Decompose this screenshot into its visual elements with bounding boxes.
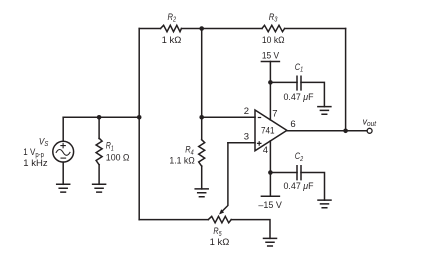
op-amp U1 741 — [255, 110, 287, 151]
svg-text:100 Ω: 100 Ω — [106, 152, 130, 163]
svg-text:15 V: 15 V — [262, 50, 280, 61]
junction node input-left — [137, 115, 142, 120]
source VS — [62, 117, 64, 141]
svg-text:1.1 kΩ: 1.1 kΩ — [169, 155, 194, 166]
svg-text:0.47 μF: 0.47 μF — [284, 92, 314, 103]
svg-text:R1: R1 — [106, 141, 114, 153]
svg-text:vout: vout — [363, 116, 377, 128]
ground (R1) — [93, 184, 106, 192]
svg-text:10 kΩ: 10 kΩ — [262, 35, 285, 46]
wire C2 right — [301, 173, 325, 201]
junction node R2-R3 — [199, 26, 204, 31]
wire R3 right to feedback corner — [285, 28, 346, 30]
wiper arrowhead — [219, 209, 224, 214]
resistor R2 — [161, 25, 182, 31]
svg-text:C1: C1 — [295, 62, 303, 74]
svg-text:7: 7 — [272, 108, 277, 119]
svg-text:0.47 μF: 0.47 μF — [284, 181, 314, 192]
svg-text:R2: R2 — [168, 12, 177, 24]
supply +15V bar — [261, 61, 279, 63]
terminal vout — [367, 128, 372, 133]
resistor R3 — [262, 25, 285, 31]
wire C1 right — [301, 82, 324, 106]
svg-text:–15 V: –15 V — [258, 200, 282, 211]
wire middle vertical (R2/R3 node down) — [201, 29, 203, 140]
svg-text:1 kΩ: 1 kΩ — [162, 35, 182, 46]
svg-text:1 kΩ: 1 kΩ — [210, 237, 230, 248]
wire left vertical — [138, 29, 140, 220]
opamp plus sign — [257, 141, 262, 146]
ground (C1) — [318, 107, 331, 115]
svg-text:R3: R3 — [269, 12, 278, 24]
svg-text:C2: C2 — [295, 151, 303, 163]
potentiometer R5 — [208, 216, 231, 222]
wire feedback vertical — [345, 29, 347, 131]
svg-text:4: 4 — [263, 145, 268, 156]
junction node C2 — [268, 170, 273, 175]
wire R5 left — [139, 219, 208, 221]
resistor R4 — [199, 140, 205, 167]
svg-text:6: 6 — [290, 119, 295, 130]
capacitor C1 — [297, 76, 301, 90]
opamp minus sign — [258, 117, 261, 119]
wire top-left segment (R2 left lead) — [139, 28, 160, 30]
svg-text:2: 2 — [244, 106, 249, 117]
wire pin4 vertical — [269, 141, 271, 196]
supply -15V bar — [261, 195, 279, 197]
capacitor C2 — [297, 166, 301, 180]
ground (R5) — [264, 238, 277, 246]
junction node output — [343, 129, 348, 134]
wire C1 left — [270, 81, 297, 83]
wire wiper from pin3 — [222, 143, 228, 212]
ground (C2) — [318, 200, 331, 208]
wire C2 left — [270, 172, 297, 174]
wire output — [287, 130, 367, 132]
wire input horizontal — [63, 116, 139, 118]
ground (R4) — [195, 189, 208, 197]
svg-text:3: 3 — [244, 131, 249, 142]
svg-text:VS: VS — [39, 136, 49, 148]
junction node C1 — [268, 80, 273, 85]
wire pin3 — [228, 142, 255, 144]
junction node pin2-R4 — [199, 115, 204, 120]
svg-text:1 kHz: 1 kHz — [23, 158, 48, 169]
junction node R1-top — [97, 115, 102, 120]
wire pin7 vertical — [269, 62, 271, 120]
wire R5 right — [231, 220, 270, 239]
wire R2 right to R3 left — [182, 28, 263, 30]
resistor R1 — [98, 117, 100, 138]
wire pin2 — [202, 116, 255, 118]
svg-text:741: 741 — [261, 126, 275, 137]
ground (VS) — [57, 184, 70, 192]
